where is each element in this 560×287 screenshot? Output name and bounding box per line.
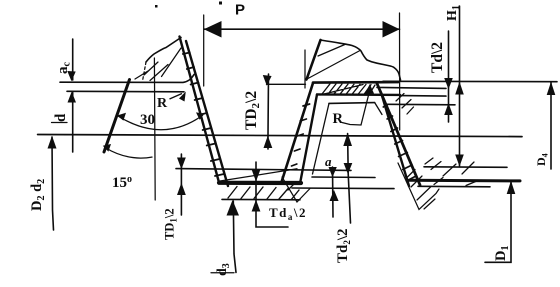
long diagonal hatch across first groove band xyxy=(220,169,297,181)
D2d2 up arrow xyxy=(48,136,57,149)
H1 dimension line xyxy=(459,6,461,166)
a up arrow xyxy=(330,190,339,201)
svg-text:D4: D4 xyxy=(534,153,550,166)
Td2/2 down arrow at line A xyxy=(344,163,353,174)
R leader right tooth xyxy=(342,92,369,125)
svg-text:TD1\2: TD1\2 xyxy=(163,208,179,240)
a_c dimension line xyxy=(72,39,74,80)
D2 d2 dimension line xyxy=(52,137,54,230)
d up arrow xyxy=(68,92,77,103)
hatch in right root band xyxy=(434,178,478,186)
hatch in right band between D1 and root xyxy=(443,162,474,176)
groove bottom thick line (first groove) xyxy=(219,181,301,185)
D4 up arrow xyxy=(547,82,556,95)
hatch right of flank top xyxy=(396,94,414,115)
right tooth: crest band hatch xyxy=(320,84,375,95)
Td/2 dimension line xyxy=(448,31,450,122)
svg-text:a: a xyxy=(325,154,332,169)
inner trapezoid left side xyxy=(313,103,330,174)
TD2/2 up arrow at pitch line xyxy=(264,136,273,148)
P extension line left xyxy=(203,15,205,86)
svg-text:H1: H1 xyxy=(445,5,462,21)
15 arc arrowhead xyxy=(103,144,111,152)
Td/2 up arrow xyxy=(444,103,453,115)
svg-text:15o: 15o xyxy=(112,174,132,191)
wire: d crest line right segment xyxy=(377,87,446,88)
d label underline xyxy=(52,122,68,124)
P arrow left xyxy=(204,21,222,38)
D1 dimension line xyxy=(485,181,511,262)
Td3/2 up arrow xyxy=(252,200,261,212)
30 arc right arrowhead xyxy=(196,112,204,119)
wire: root band line right groove xyxy=(418,185,490,188)
svg-text:D2 d2: D2 d2 xyxy=(29,179,47,211)
wire: line at nut crest nominal (inner trapezoid top) xyxy=(329,102,375,105)
right tooth: right flank inner thick xyxy=(382,94,410,186)
inner trapezoid right stub xyxy=(375,103,382,115)
svg-text:R: R xyxy=(333,111,344,127)
a down arrow xyxy=(329,167,337,177)
wire: D1 line right segment xyxy=(424,166,507,169)
Td3/2 down arrow xyxy=(252,170,261,182)
groove bottom thick line (right groove) xyxy=(409,179,520,183)
svg-text:30: 30 xyxy=(140,112,155,128)
nut profile V below right groove xyxy=(398,163,439,210)
Td2/2 dimension line xyxy=(348,134,351,224)
svg-text:Td\2: Td\2 xyxy=(429,42,446,73)
left tooth: flank band rungs xyxy=(183,53,224,177)
stray dot left of P xyxy=(155,5,158,8)
wire: crest lower-limit short line right xyxy=(401,95,446,98)
first groove root band hatch xyxy=(228,187,299,200)
H1 down arrow xyxy=(455,155,464,167)
svg-text:Tda\2: Tda\2 xyxy=(269,205,307,222)
TD1/2 dimension line xyxy=(180,154,182,215)
right tooth: right flank outer thick xyxy=(377,84,420,186)
svg-text:ac: ac xyxy=(55,62,73,75)
a_c down arrow xyxy=(67,71,75,81)
left tooth: right flank inner thick line xyxy=(180,37,220,183)
R leader left tooth xyxy=(170,94,183,100)
right groove V hatch strokes xyxy=(407,170,436,210)
wire: bottom line of first groove root band xyxy=(222,198,300,200)
wire: d crest line left segment xyxy=(67,90,184,93)
d3 label hook xyxy=(211,272,234,274)
left tooth: left flank thick xyxy=(104,80,130,153)
svg-text:d: d xyxy=(53,113,69,122)
30 arc left arrowhead xyxy=(117,113,126,121)
right tooth: right flank band rungs xyxy=(383,105,416,182)
wire: pitch diameter line D2 d2 xyxy=(38,135,522,137)
d3 up arrow (large) xyxy=(227,200,240,216)
hatch in first groove V xyxy=(288,182,296,190)
svg-text:P: P xyxy=(235,2,245,19)
wire: D4 crest line left segment xyxy=(60,75,194,83)
Td2/2 up arrow at pitch line xyxy=(343,133,352,146)
TD2/2 lower arrow tail xyxy=(267,136,269,149)
left tooth: free-cut blob top boundary xyxy=(146,38,181,63)
TD1/2 down arrow xyxy=(177,158,186,170)
right tooth: left flank outer thick xyxy=(282,83,314,182)
wire: line A below right tooth xyxy=(312,176,375,179)
15 degree arc xyxy=(105,148,153,159)
P dimension line xyxy=(204,28,400,30)
TD1/2 up arrow xyxy=(177,183,186,195)
30 degree arc xyxy=(118,115,203,130)
R right-tooth leader arrowhead xyxy=(365,84,374,94)
Td3/2 dimension line with hook xyxy=(256,162,288,227)
left tooth: blob hatch strokes xyxy=(135,48,181,81)
stray dot near P xyxy=(219,2,222,5)
svg-text:R: R xyxy=(157,96,168,111)
hatch between right flank and D1 line xyxy=(425,158,441,170)
right tooth: blob hatch strokes xyxy=(307,44,360,79)
wire: crest lower limit line extending right xyxy=(387,103,455,106)
TD2/2 dimension line xyxy=(267,74,270,136)
wire: D4 crest line right segment xyxy=(383,80,557,82)
R left-tooth leader arrowhead xyxy=(179,92,186,102)
right tooth: crest thick top line xyxy=(313,81,398,84)
TD2/2 upper limit line xyxy=(267,83,306,85)
P extension line right xyxy=(399,13,401,130)
nut profile V below first groove xyxy=(282,177,310,202)
wire: line B below right tooth xyxy=(292,187,394,190)
svg-text:TD2\2: TD2\2 xyxy=(243,91,262,130)
d3 dimension line xyxy=(233,201,236,273)
TD2/2 down arrow xyxy=(263,75,272,86)
right tooth: short vertical construction line xyxy=(304,50,306,88)
wire: D1 line across first groove xyxy=(176,169,351,171)
D1 up arrow xyxy=(507,181,516,194)
right tooth: blob thick left edge xyxy=(307,40,321,80)
right tooth: blob top boundary xyxy=(321,40,401,80)
left tooth: blob dashed left edge xyxy=(143,62,147,81)
left tooth: centerline xyxy=(153,58,156,200)
P arrow right xyxy=(383,21,400,38)
svg-text:d3: d3 xyxy=(215,263,232,276)
right tooth: left flank band rungs xyxy=(292,104,310,166)
svg-text:Td2\2: Td2\2 xyxy=(335,228,352,263)
svg-text:D1: D1 xyxy=(493,246,511,261)
left tooth: right flank outer thick line xyxy=(186,41,228,186)
a dimension line xyxy=(332,167,335,217)
d dimension line xyxy=(72,93,74,153)
Td/2 down arrow xyxy=(444,78,453,89)
right tooth: crest thick second line xyxy=(317,93,400,96)
D4 dimension line xyxy=(550,83,552,170)
right tooth: left flank inner thick xyxy=(301,95,318,182)
H1 up arrow xyxy=(455,82,464,95)
